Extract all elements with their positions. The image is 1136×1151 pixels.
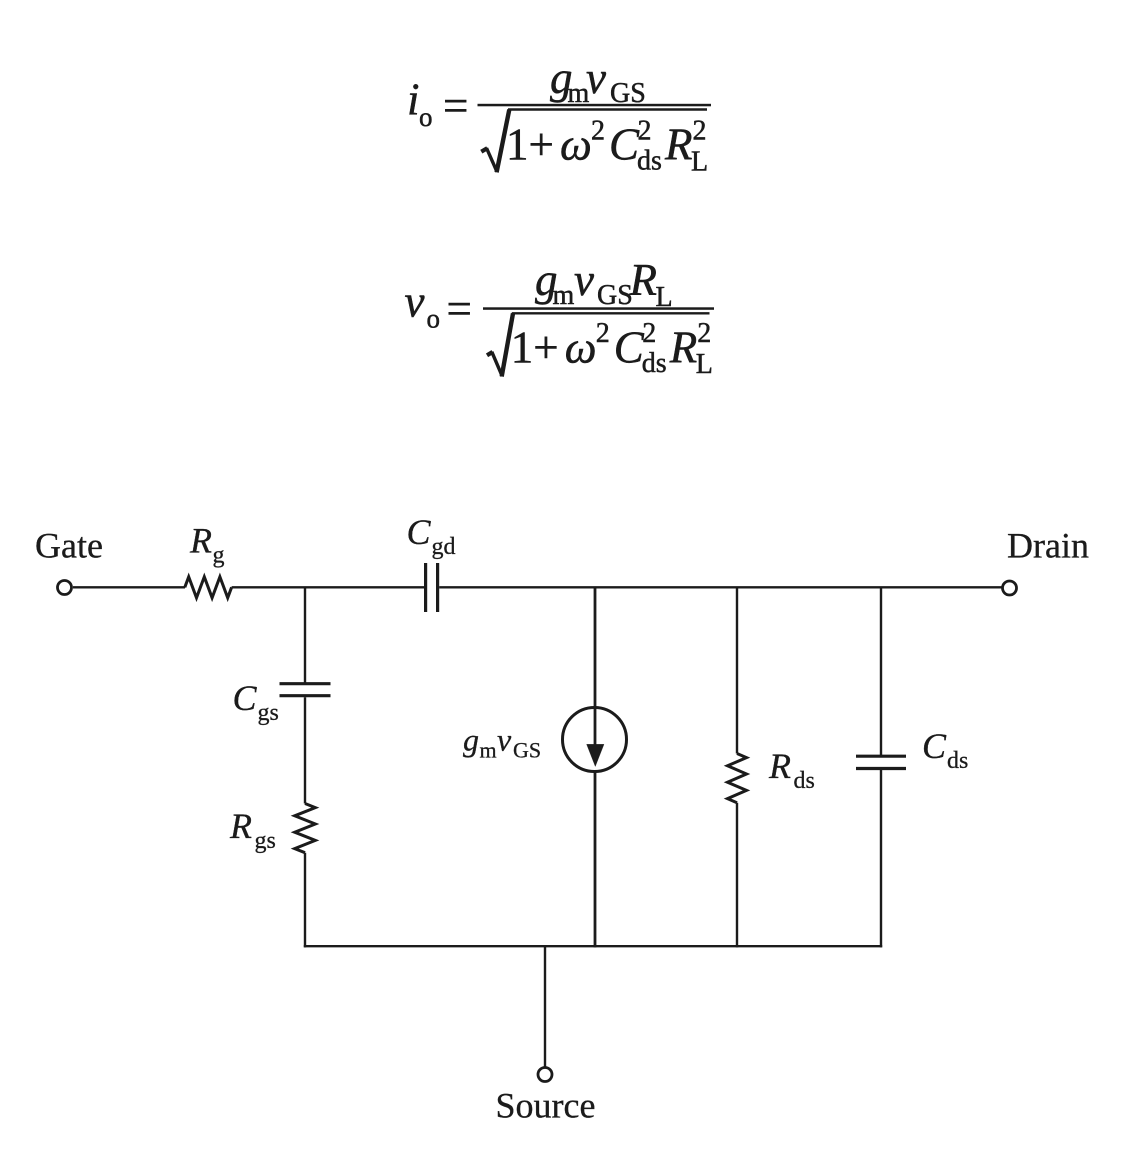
svg-text:+: + <box>529 120 554 170</box>
svg-text:gd: gd <box>432 534 456 560</box>
wire Cds branch top <box>880 587 882 755</box>
eq2 radical sign <box>487 352 493 355</box>
svg-text:ds: ds <box>947 748 968 774</box>
svg-text:2: 2 <box>638 116 652 147</box>
svg-text:2: 2 <box>697 318 711 349</box>
svg-text:+: + <box>533 322 558 372</box>
wire current source to rail <box>594 770 597 947</box>
equation 1: io = gm vGS / sqrt(1 + w^2 Cds^2 RL^2) <box>407 53 711 177</box>
svg-text:R: R <box>664 120 693 170</box>
resistor Rg <box>185 577 232 598</box>
wire gate to Rg <box>73 586 185 588</box>
svg-text:ds: ds <box>794 768 815 794</box>
current source circle U1 <box>563 708 627 772</box>
wire Cgd to drain <box>439 586 1002 588</box>
svg-text:ω: ω <box>560 120 592 170</box>
capacitor Cgd plates <box>424 563 427 612</box>
svg-text:2: 2 <box>596 318 610 349</box>
svg-text:C: C <box>233 678 258 718</box>
wire source stub <box>544 946 546 1067</box>
svg-text:ω: ω <box>565 322 597 372</box>
svg-text:ds: ds <box>642 348 667 379</box>
wire Cgs to Rgs <box>304 697 306 803</box>
resistor Rgs <box>295 804 316 853</box>
svg-text:Source: Source <box>496 1086 596 1126</box>
svg-text:m: m <box>480 738 497 763</box>
svg-text:v: v <box>497 722 512 758</box>
eq1 radical sign <box>481 148 487 152</box>
svg-text:GS: GS <box>513 738 541 763</box>
wire current source branch top <box>594 587 597 745</box>
svg-text:Drain: Drain <box>1007 526 1089 566</box>
svg-text:o: o <box>427 304 441 334</box>
eq2 fraction bar <box>483 307 714 310</box>
svg-text:R: R <box>189 521 212 561</box>
svg-text:v: v <box>405 276 425 326</box>
resistor Rds <box>728 754 747 803</box>
svg-text:R: R <box>669 322 698 372</box>
capacitor Cgs plates <box>280 682 331 685</box>
svg-text:GS: GS <box>597 280 633 311</box>
wire Cds to rail <box>880 770 882 947</box>
svg-text:C: C <box>922 726 947 766</box>
svg-text:=: = <box>447 284 472 334</box>
wire Rgs to rail <box>304 853 306 948</box>
svg-text:L: L <box>691 147 708 178</box>
svg-text:i: i <box>407 75 420 125</box>
svg-text:C: C <box>614 322 645 372</box>
svg-text:C: C <box>609 120 640 170</box>
svg-text:gs: gs <box>255 828 276 854</box>
svg-text:v: v <box>586 53 606 103</box>
svg-text:g: g <box>213 543 225 569</box>
svg-text:2: 2 <box>642 318 656 349</box>
svg-text:ds: ds <box>637 145 662 176</box>
drain terminal <box>1003 581 1017 595</box>
svg-text:gs: gs <box>258 700 279 726</box>
svg-text:C: C <box>407 512 432 552</box>
wire Rg to Cgd <box>232 586 424 588</box>
source terminal <box>538 1068 552 1082</box>
svg-text:GS: GS <box>610 78 646 109</box>
svg-text:=: = <box>443 81 468 131</box>
capacitor Cds plates <box>856 755 906 758</box>
svg-text:m: m <box>553 280 575 311</box>
svg-text:L: L <box>656 282 673 313</box>
eq1 fraction bar <box>478 104 712 107</box>
bottom rail wire <box>304 945 882 947</box>
svg-text:1: 1 <box>511 322 534 372</box>
wire Rds branch top <box>736 587 738 753</box>
svg-text:1: 1 <box>506 120 529 170</box>
svg-text:v: v <box>574 255 594 305</box>
svg-text:L: L <box>696 349 713 380</box>
svg-text:R: R <box>768 746 791 786</box>
svg-text:R: R <box>229 806 252 846</box>
wire Rds to rail <box>736 803 738 948</box>
equation 2: vo = gm vGS RL / sqrt(1 + w^2 Cds^2 RL^2) <box>405 255 715 380</box>
svg-text:R: R <box>629 255 658 305</box>
svg-text:o: o <box>419 102 433 132</box>
gate terminal <box>58 581 72 595</box>
current source arrow <box>587 744 604 766</box>
wire Cgs branch vertical top <box>304 587 306 683</box>
svg-text:g: g <box>463 722 479 758</box>
svg-text:Gate: Gate <box>35 526 103 566</box>
svg-text:2: 2 <box>693 116 707 147</box>
svg-text:2: 2 <box>591 116 605 147</box>
